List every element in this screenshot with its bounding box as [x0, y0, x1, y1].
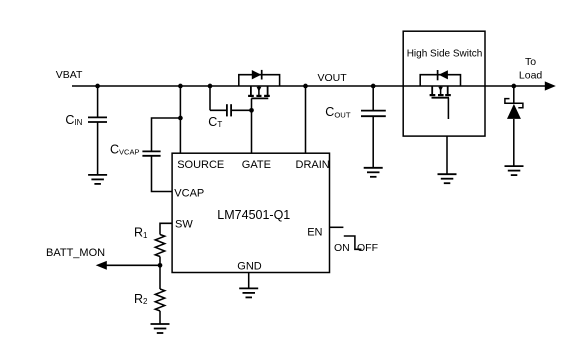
transistor Q1 body arrow: [258, 86, 260, 95]
capacitor CIN plates: [88, 116, 107, 118]
transistor Q2 source stub: [431, 86, 433, 94]
svg-text:DRAIN: DRAIN: [296, 159, 330, 171]
junction divider node: [158, 263, 163, 268]
svg-text:VOUT: VOUT: [318, 72, 348, 84]
svg-text:R2: R2: [134, 292, 148, 306]
svg-text:R1: R1: [134, 226, 148, 240]
wire VOUT through high side switch: [373, 85, 514, 87]
TVS diode bottom lead: [513, 119, 515, 166]
wire high side switch ground lead: [446, 136, 448, 174]
capacitor COUT plates: [361, 110, 386, 112]
capacitor CT plates: [226, 104, 228, 116]
switch ON/OFF lever: [344, 236, 362, 249]
wire R1 to divider node: [159, 257, 161, 266]
resistor R1: [155, 235, 164, 257]
wire VBAT rail left segment: [72, 85, 98, 87]
ground below high side switch: [438, 174, 457, 183]
svg-text:Load: Load: [519, 69, 543, 81]
transistor Q1 gate bar: [251, 97, 268, 99]
svg-text:VBAT: VBAT: [56, 69, 83, 81]
wire to load arrow: [514, 85, 545, 87]
arrow to load: [545, 81, 556, 90]
transistor Q1 body diode branch: [239, 75, 280, 86]
wire VBAT rail to SOURCE tap: [98, 85, 181, 87]
wire GND pin lead: [248, 273, 250, 289]
transistor Q1 drain stub: [267, 86, 269, 95]
junction DRAIN tap at VOUT: [303, 84, 308, 89]
svg-text:EN: EN: [307, 226, 322, 238]
svg-text:CVCAP: CVCAP: [110, 142, 139, 156]
resistor R2: [155, 289, 164, 311]
ground below GND pin: [239, 288, 258, 297]
transistor Q2 drain stub: [447, 86, 449, 94]
wire COUT bottom lead: [372, 116, 374, 168]
diode of Q1 triangle: [252, 70, 261, 79]
junction CT tap on VBAT rail: [208, 84, 213, 89]
ground below TVS diode: [505, 166, 524, 175]
svg-text:ON: ON: [334, 242, 350, 254]
wire CVCAP top lead: [152, 118, 181, 151]
ground below CIN: [88, 175, 107, 184]
wire CVCAP bottom lead to VCAP pin: [152, 156, 173, 192]
capacitor CIN lead top: [97, 86, 99, 117]
junction CT on gate line: [249, 108, 254, 113]
TVS diode triangle: [507, 104, 521, 119]
ground below R2: [151, 324, 170, 333]
svg-text:VCAP: VCAP: [174, 187, 204, 199]
svg-text:COUT: COUT: [325, 105, 351, 120]
svg-text:CIN: CIN: [65, 113, 82, 127]
transistor Q2 body diode branch: [420, 75, 460, 86]
svg-text:GATE: GATE: [242, 159, 271, 171]
junction SOURCE tap on VBAT rail: [178, 84, 183, 89]
high side switch box: [403, 31, 485, 136]
wire CIN lead bottom: [97, 122, 99, 175]
TVS diode cathode bar with hooks: [505, 99, 523, 108]
capacitor CVCAP plates: [142, 150, 160, 152]
wire rail under Q1 to VOUT node: [210, 85, 306, 87]
svg-text:GND: GND: [237, 261, 261, 273]
junction TVS tap: [511, 84, 516, 89]
wire CT left lead: [210, 109, 227, 111]
diode of Q2 cathode bar: [437, 70, 439, 80]
TVS diode top lead: [513, 86, 515, 103]
capacitor COUT top lead: [372, 86, 374, 110]
svg-text:CT: CT: [208, 115, 222, 129]
transistor Q2 gate bar: [432, 97, 450, 99]
wire SW pin to R1: [160, 223, 172, 234]
wire gate line down to GATE pin: [251, 98, 253, 153]
op-amp U1 LM74501-Q1 box: [172, 153, 329, 272]
transistor Q1 channel bars: [248, 95, 270, 97]
svg-text:SW: SW: [175, 218, 193, 230]
wire VOUT down to DRAIN pin: [305, 86, 307, 153]
svg-text:To: To: [525, 56, 536, 68]
wire VBAT rail down to SOURCE pin: [179, 86, 181, 153]
wire VOUT to COUT tap: [306, 85, 374, 87]
junction COUT tap: [371, 84, 376, 89]
junction CVCAP tap on SOURCE line: [178, 116, 183, 121]
wire EN pin stub: [330, 226, 344, 228]
transistor Q2 body arrow: [440, 86, 442, 95]
svg-text:OFF: OFF: [357, 242, 378, 254]
transistor Q1 source stub: [250, 86, 252, 95]
arrow BATT_MON: [96, 261, 107, 270]
wire BATT_MON: [107, 264, 161, 266]
junction CIN on VBAT rail: [95, 84, 100, 89]
transistor Q2 channel bars: [430, 94, 451, 96]
wire VBAT rail to CT tap: [180, 85, 210, 87]
svg-text:SOURCE: SOURCE: [177, 159, 224, 171]
wire R2 bottom lead: [159, 311, 161, 324]
diode of Q2 triangle: [439, 70, 448, 79]
ground below COUT: [364, 168, 383, 177]
svg-text:LM74501-Q1: LM74501-Q1: [217, 208, 290, 222]
wire CT riser from rail: [209, 86, 211, 110]
diode of Q1 cathode bar: [261, 70, 263, 80]
svg-text:BATT_MON: BATT_MON: [46, 247, 105, 259]
svg-text:High Side Switch: High Side Switch: [407, 48, 483, 59]
wire CT right lead to gate line: [231, 109, 251, 111]
wire divider node to R2: [159, 265, 161, 289]
wire Q2 gate drop inside box: [447, 98, 449, 119]
